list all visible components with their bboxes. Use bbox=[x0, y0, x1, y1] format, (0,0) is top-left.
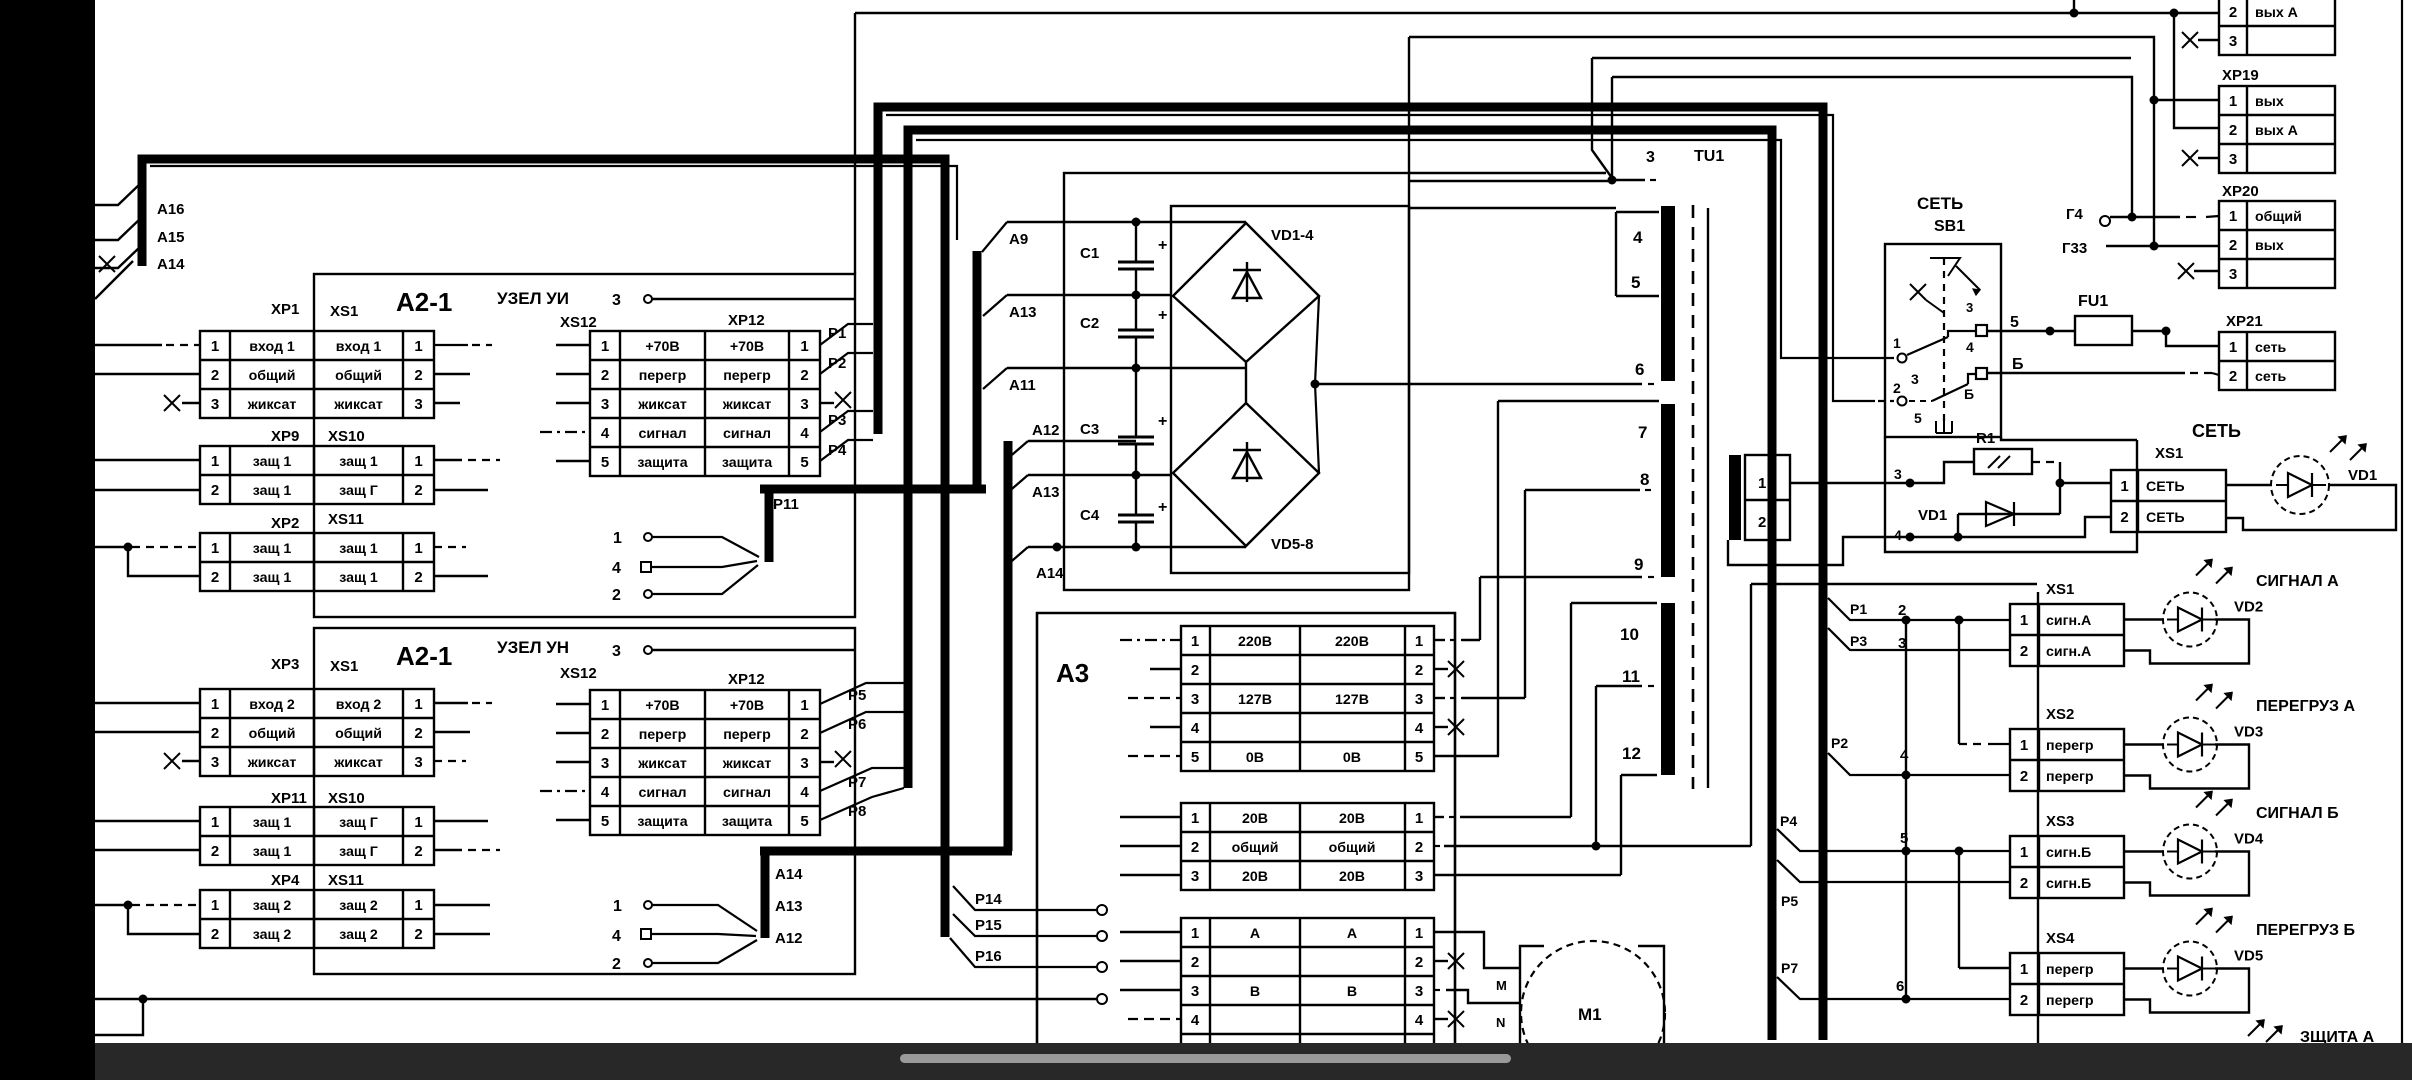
x-mark XP18 row3 bbox=[2182, 32, 2198, 48]
svg-text:2: 2 bbox=[2229, 4, 2237, 21]
svg-text:3: 3 bbox=[601, 755, 609, 772]
svg-text:2: 2 bbox=[601, 367, 609, 384]
svg-text:1: 1 bbox=[2120, 478, 2128, 495]
svg-text:4: 4 bbox=[601, 784, 610, 801]
svg-text:защ 2: защ 2 bbox=[339, 927, 378, 943]
svg-text:3: 3 bbox=[211, 396, 219, 413]
svg-text:2: 2 bbox=[2229, 122, 2237, 139]
wire A3-3 row2 stub bbox=[1120, 960, 1181, 962]
wire A13 upper bbox=[1007, 294, 1171, 296]
svg-text:С3: С3 bbox=[1080, 421, 1099, 438]
svg-text:0В: 0В bbox=[1246, 750, 1264, 766]
junction dot 1906-620 bbox=[1902, 616, 1911, 625]
wire left XP9 row2 bbox=[95, 489, 200, 491]
connector table XP3 bbox=[200, 689, 434, 776]
bus B thin companion wire to SB1 pin1 bbox=[916, 140, 1894, 358]
table A3 mains taps bbox=[1181, 626, 1434, 771]
svg-text:VD3: VD3 bbox=[2234, 724, 2263, 741]
block A2-1 node UI outline bbox=[314, 274, 855, 617]
svg-text:3: 3 bbox=[612, 643, 621, 660]
wire A12 bbox=[1028, 440, 1136, 442]
LED VD5 diode symbol bbox=[2178, 957, 2202, 981]
bus B thick (inner top jumper bus) bbox=[908, 130, 1772, 1040]
wire left XP4 branch down bbox=[128, 905, 200, 934]
wire secondary 2 to lower rail bbox=[1728, 517, 2111, 565]
wire A3-1 row3 stub dashed bbox=[1128, 697, 1181, 699]
wire dashes from pin2 bbox=[1909, 400, 1932, 402]
svg-text:VD1-4: VD1-4 bbox=[1271, 227, 1314, 244]
x-mark XP19 row3 bbox=[2182, 150, 2198, 166]
svg-text:2: 2 bbox=[414, 367, 422, 384]
wire bridge outputs join bbox=[1315, 296, 1319, 473]
wire A14 lower slant bbox=[1006, 547, 1028, 566]
svg-text:А14: А14 bbox=[775, 866, 803, 883]
svg-text:А13: А13 bbox=[1032, 484, 1060, 501]
transformer primary bar section 3 bbox=[1661, 603, 1675, 775]
wire tap9 bbox=[1480, 576, 1642, 578]
svg-text:3: 3 bbox=[800, 755, 808, 772]
svg-text:В: В bbox=[1347, 984, 1357, 1000]
junction dot fuse right bbox=[2162, 327, 2171, 336]
svg-text:3: 3 bbox=[612, 292, 621, 309]
wire A3-1 row1 stub dash-dot bbox=[1120, 639, 1181, 641]
svg-text:3: 3 bbox=[1191, 691, 1199, 708]
wire P8 slant bbox=[820, 788, 904, 820]
wire branch 1959 lower bbox=[1958, 851, 1960, 968]
wire right XP3 row2 bbox=[434, 731, 470, 733]
wire bottom rail with connector circle bbox=[95, 998, 1096, 1000]
svg-text:защ 1: защ 1 bbox=[339, 570, 378, 586]
svg-text:2: 2 bbox=[2020, 643, 2028, 660]
svg-text:сигн.А: сигн.А bbox=[2046, 644, 2091, 660]
svg-text:С1: С1 bbox=[1080, 245, 1099, 262]
svg-text:жиксат: жиксат bbox=[247, 397, 297, 413]
svg-text:2: 2 bbox=[414, 569, 422, 586]
svg-text:сигнал: сигнал bbox=[639, 785, 687, 801]
wire vertical 855 bbox=[854, 13, 856, 274]
transformer secondary side line bbox=[1707, 208, 1709, 788]
connector table XP4 bbox=[200, 890, 434, 948]
x-mark XP20 row3 bbox=[2178, 263, 2194, 279]
svg-text:1: 1 bbox=[2020, 844, 2028, 861]
winding box 4-5 bbox=[1615, 212, 1617, 296]
wire pin2 to bus D tip bbox=[652, 565, 758, 594]
wire right XP4 row1 bbox=[434, 904, 490, 906]
wire SB1 pin6 to XP21 row2 bbox=[1987, 372, 2185, 374]
x-mark A3-3 row4 bbox=[1434, 1018, 1448, 1020]
wire A9 bbox=[1007, 221, 1246, 223]
svg-text:3: 3 bbox=[1911, 371, 1919, 387]
svg-text:жиксат: жиксат bbox=[247, 755, 297, 771]
svg-text:ХР11: ХР11 bbox=[271, 790, 307, 807]
svg-text:ХР4: ХР4 bbox=[271, 872, 300, 889]
svg-text:ПЕРЕГРУЗ А: ПЕРЕГРУЗ А bbox=[2256, 698, 2355, 715]
svg-text:+70В: +70В bbox=[645, 339, 679, 355]
svg-text:Р14: Р14 bbox=[975, 891, 1002, 908]
x-mark XS12b row3 bbox=[820, 761, 834, 763]
wire P1 slant right bbox=[1828, 598, 2010, 620]
wire A3-2 row2 stub bbox=[1120, 845, 1181, 847]
svg-text:жиксат: жиксат bbox=[722, 756, 772, 772]
wire tap8 riser bbox=[1524, 490, 1526, 698]
wire A3-2 row2 to riser 1754 bbox=[1434, 845, 1444, 847]
wire right XP4 row2 bbox=[434, 933, 490, 935]
junction dot lower rail left bbox=[1906, 533, 1915, 542]
wire y77 to G4 bbox=[1612, 77, 2132, 217]
capacitor C2 bbox=[1135, 295, 1137, 330]
svg-text:вход 2: вход 2 bbox=[249, 697, 295, 713]
wire tap7 bbox=[1498, 400, 1659, 402]
svg-text:6: 6 bbox=[1896, 978, 1904, 995]
svg-text:1: 1 bbox=[2229, 208, 2237, 225]
svg-text:ХР3: ХР3 bbox=[271, 656, 299, 673]
junction dot net 3 wire bbox=[1906, 479, 1915, 488]
svg-text:5: 5 bbox=[1900, 830, 1908, 847]
wire ХS1 row1 to LED bbox=[2124, 618, 2163, 620]
wire A3-2 row1 stub bbox=[1120, 816, 1181, 818]
svg-text:2: 2 bbox=[211, 926, 219, 943]
transformer TU1 core dashed bbox=[1692, 205, 1695, 789]
svg-text:В: В bbox=[1250, 984, 1260, 1000]
svg-text:5: 5 bbox=[601, 454, 609, 471]
svg-text:А: А bbox=[1250, 926, 1260, 942]
svg-text:4: 4 bbox=[1894, 527, 1902, 543]
svg-text:3: 3 bbox=[1646, 149, 1655, 166]
wire A14 lower bbox=[1028, 546, 1246, 548]
wire P4 slant bbox=[820, 440, 873, 461]
wire pin1 to bus C tip bbox=[652, 905, 757, 931]
wire tap10 riser bbox=[1570, 603, 1572, 817]
LED VD4 diode symbol bbox=[2178, 840, 2202, 864]
wire bottom hook to left edge bbox=[95, 999, 143, 1035]
svg-text:защита: защита bbox=[722, 455, 772, 471]
svg-text:5: 5 bbox=[2010, 314, 2019, 331]
svg-text:защ 1: защ 1 bbox=[253, 570, 292, 586]
svg-text:220В: 220В bbox=[1238, 634, 1272, 650]
switch blade 2 bbox=[1932, 374, 1976, 401]
svg-text:ХР19: ХР19 bbox=[2222, 67, 2259, 84]
svg-text:защ 1: защ 1 bbox=[253, 541, 292, 557]
svg-text:ХР12: ХР12 bbox=[728, 671, 765, 688]
svg-text:2: 2 bbox=[2229, 368, 2237, 385]
wire pin1 to bus D tip bbox=[652, 537, 759, 557]
bus A thin companion wire to SB1 pin2 bbox=[886, 115, 1875, 401]
wire tap3 bbox=[1612, 179, 1645, 181]
junction dot 1959-851 bbox=[1955, 847, 1964, 856]
LED VD1 circle bbox=[2271, 456, 2329, 514]
svg-text:Р16: Р16 bbox=[975, 948, 1002, 965]
wire left XP11 row2 bbox=[95, 849, 200, 851]
svg-text:С2: С2 bbox=[1080, 315, 1099, 332]
svg-text:А3: А3 bbox=[1056, 658, 1089, 688]
svg-text:общий: общий bbox=[1329, 840, 1376, 856]
svg-text:SВ1: SВ1 bbox=[1934, 218, 1965, 235]
wire stub A14 with x-mark bbox=[95, 246, 141, 268]
LED VD3 diode symbol bbox=[2178, 733, 2202, 757]
svg-text:220В: 220В bbox=[1335, 634, 1369, 650]
svg-text:А12: А12 bbox=[775, 930, 803, 947]
junction dot 1959-620 bbox=[1955, 616, 1964, 625]
LED VD5 circle bbox=[2163, 942, 2217, 996]
wire tap10 bbox=[1571, 602, 1657, 604]
switch linkage dashed bbox=[1943, 258, 1945, 424]
junction dot XP19 row1 bbox=[2150, 96, 2159, 105]
bus D thick (left riser) bbox=[760, 251, 986, 562]
wire y58 bbox=[1592, 57, 2131, 59]
junction dot C4 bottom bbox=[1132, 543, 1141, 552]
wire tap11 bbox=[1596, 685, 1642, 687]
svg-text:4: 4 bbox=[800, 784, 809, 801]
svg-text:А9: А9 bbox=[1009, 231, 1028, 248]
svg-text:защ 2: защ 2 bbox=[253, 927, 292, 943]
svg-text:общий: общий bbox=[1232, 840, 1279, 856]
svg-text:ХS1: ХS1 bbox=[2046, 581, 2074, 598]
svg-text:20В: 20В bbox=[1339, 869, 1365, 885]
svg-text:Б: Б bbox=[2012, 356, 2024, 373]
svg-text:1: 1 bbox=[1415, 633, 1423, 650]
junction dot bridge output bbox=[1311, 380, 1320, 389]
power module box bottom bbox=[1885, 437, 2137, 552]
wire y37 to XP19 area bbox=[1409, 37, 2154, 246]
svg-text:вых А: вых А bbox=[2255, 5, 2298, 21]
wire left XP1 row1 dashed bbox=[95, 344, 162, 346]
svg-text:3: 3 bbox=[601, 396, 609, 413]
svg-text:Р2: Р2 bbox=[828, 355, 846, 372]
svg-text:ХS2: ХS2 bbox=[2046, 706, 2074, 723]
wire tap4 bbox=[1616, 211, 1659, 213]
wire pin4 to bus C tip bbox=[652, 934, 756, 936]
svg-text:1: 1 bbox=[211, 540, 219, 557]
motor frame right bbox=[1638, 946, 1664, 1043]
svg-text:защ 1: защ 1 bbox=[253, 844, 292, 860]
junction dot VD1 node bbox=[2056, 479, 2065, 488]
bus A thick (outer top jumper bus) bbox=[878, 107, 1823, 1040]
svg-text:12: 12 bbox=[1622, 744, 1641, 763]
svg-text:2: 2 bbox=[211, 725, 219, 742]
svg-text:вход 1: вход 1 bbox=[336, 339, 382, 355]
svg-text:+70В: +70В bbox=[645, 698, 679, 714]
switch arrow contact 3 bbox=[1956, 266, 1980, 290]
wire vertical 1592 with diagonal bbox=[1592, 58, 1612, 178]
svg-text:перегр: перегр bbox=[639, 368, 687, 384]
connector table ХS2 bbox=[2010, 729, 2124, 791]
wire P4 slant right bbox=[1777, 829, 2010, 851]
LED VD1 arrows bbox=[2330, 436, 2346, 452]
svg-text:сеть: сеть bbox=[2255, 340, 2287, 356]
svg-text:СЕТЬ: СЕТЬ bbox=[2146, 479, 2185, 495]
pin circle 3 block2 bbox=[644, 646, 652, 654]
wire A3-2 row3 to tap12 riser bbox=[1434, 874, 1621, 876]
svg-text:ХР2: ХР2 bbox=[271, 515, 299, 532]
svg-text:2: 2 bbox=[2020, 875, 2028, 892]
pin circle 2 bbox=[1898, 397, 1907, 406]
svg-text:Р3: Р3 bbox=[828, 412, 846, 429]
svg-text:3: 3 bbox=[211, 754, 219, 771]
svg-text:Р4: Р4 bbox=[1780, 813, 1797, 829]
svg-text:1: 1 bbox=[2229, 93, 2237, 110]
svg-text:Г33: Г33 bbox=[2062, 240, 2087, 257]
wire tap11 riser bbox=[1595, 686, 1597, 846]
svg-text:2: 2 bbox=[414, 843, 422, 860]
svg-text:ХР1: ХР1 bbox=[271, 301, 299, 318]
wire right XP1 row3 bbox=[434, 402, 460, 404]
LED VD3 arrows bbox=[2196, 685, 2212, 701]
svg-text:Р2: Р2 bbox=[1831, 735, 1848, 751]
svg-text:защита: защита bbox=[722, 814, 772, 830]
connector table XP11 bbox=[200, 807, 434, 865]
junction dot tap11 bbox=[1592, 842, 1601, 851]
svg-text:ХS11: ХS11 bbox=[328, 511, 364, 528]
table A3 20V taps bbox=[1181, 803, 1434, 890]
pin circle G4 bbox=[2100, 216, 2110, 226]
svg-text:сигн.Б: сигн.Б bbox=[2046, 876, 2091, 892]
svg-text:1: 1 bbox=[800, 338, 808, 355]
svg-text:2: 2 bbox=[601, 726, 609, 743]
svg-text:1: 1 bbox=[1758, 475, 1766, 492]
svg-text:ХS10: ХS10 bbox=[328, 428, 365, 445]
svg-text:С4: С4 bbox=[1080, 507, 1100, 524]
svg-text:перегр: перегр bbox=[723, 368, 771, 384]
wire A9 slant from bus D bbox=[982, 222, 1007, 252]
wire P16 tap with connector circle bbox=[950, 938, 1096, 967]
svg-text:1: 1 bbox=[1191, 810, 1199, 827]
wire right XP2 row2 bbox=[434, 575, 488, 577]
svg-text:защита: защита bbox=[637, 455, 687, 471]
wire left XP11 row1 bbox=[95, 820, 200, 822]
svg-text:2: 2 bbox=[1191, 662, 1199, 679]
svg-text:ХS3: ХS3 bbox=[2046, 813, 2074, 830]
svg-text:6: 6 bbox=[1635, 360, 1644, 379]
svg-text:А14: А14 bbox=[1036, 565, 1064, 582]
wire right XP11 row2 dashed bbox=[434, 849, 462, 851]
junction dot lower rail VD1 bbox=[1954, 533, 1963, 542]
svg-text:4: 4 bbox=[612, 928, 621, 945]
svg-text:А12: А12 bbox=[1032, 422, 1060, 439]
svg-text:ХS11: ХS11 bbox=[328, 872, 364, 889]
svg-text:А14: А14 bbox=[157, 256, 185, 273]
wire R1 right dashed bbox=[2032, 461, 2056, 463]
wire from pin3 to block edge bbox=[652, 649, 855, 651]
pin circle 1 bbox=[1898, 354, 1907, 363]
wire right XP2 row1 dashed bbox=[434, 546, 466, 548]
wire A3-3 row1 stub bbox=[1120, 931, 1181, 933]
svg-text:общий: общий bbox=[249, 726, 296, 742]
pin circle 3 block1 bbox=[644, 295, 652, 303]
svg-text:8: 8 bbox=[1640, 470, 1649, 489]
junction dot 1906-775 bbox=[1902, 771, 1911, 780]
wire A11 bbox=[1007, 367, 1246, 369]
wire A13 slant bbox=[983, 295, 1007, 316]
x-mark A3-1 row2 bbox=[1434, 668, 1448, 670]
svg-text:0В: 0В bbox=[1343, 750, 1361, 766]
svg-text:2: 2 bbox=[1191, 839, 1199, 856]
wire inner box top extension to winding 4 bbox=[1409, 207, 1616, 209]
wire A3-1 row2 stub bbox=[1150, 668, 1181, 670]
svg-text:5: 5 bbox=[1415, 749, 1423, 766]
wire left XP2 row1 with junction bbox=[95, 546, 130, 548]
svg-text:М: М bbox=[1496, 978, 1507, 993]
svg-text:защ 2: защ 2 bbox=[339, 898, 378, 914]
junction dot 1906-851 bbox=[1902, 847, 1911, 856]
transformer primary bar section 1 bbox=[1661, 206, 1675, 381]
connector table XP9/XS10 bbox=[200, 446, 434, 504]
secondary winding cell box bbox=[1745, 455, 1790, 540]
svg-text:защ 1: защ 1 bbox=[253, 483, 292, 499]
x-mark A3-1 row4 bbox=[1434, 726, 1448, 728]
svg-text:А13: А13 bbox=[1009, 304, 1037, 321]
svg-text:3: 3 bbox=[1415, 983, 1423, 1000]
svg-text:2: 2 bbox=[800, 726, 808, 743]
wire A3-2 row3 stub bbox=[1120, 874, 1181, 876]
svg-text:ХР9: ХР9 bbox=[271, 428, 299, 445]
wire P7 slant bbox=[820, 768, 904, 791]
svg-text:Р5: Р5 bbox=[848, 687, 866, 704]
wire A3-1 row1 to tap9 bbox=[1434, 639, 1445, 641]
svg-text:2: 2 bbox=[211, 367, 219, 384]
block A2-1 node UN outline bbox=[314, 628, 855, 974]
svg-text:1: 1 bbox=[601, 697, 609, 714]
wire tap11 rail riser to XS net bbox=[1751, 583, 2037, 585]
svg-text:2: 2 bbox=[1758, 514, 1766, 531]
svg-text:1: 1 bbox=[211, 814, 219, 831]
svg-text:3: 3 bbox=[1191, 868, 1199, 885]
LED VD4 circle bbox=[2163, 825, 2217, 879]
svg-text:3: 3 bbox=[414, 396, 422, 413]
wire ХS2 row1 to LED bbox=[2124, 743, 2163, 745]
svg-text:ХS1: ХS1 bbox=[330, 303, 358, 320]
wire SB1 box edge to module box bbox=[2001, 437, 2137, 440]
svg-text:2: 2 bbox=[612, 587, 621, 604]
svg-text:1: 1 bbox=[414, 696, 422, 713]
wire stub XS12-1 bbox=[556, 344, 590, 346]
svg-text:М1: М1 bbox=[1578, 1005, 1602, 1024]
svg-text:ХР20: ХР20 bbox=[2222, 183, 2259, 200]
svg-text:2: 2 bbox=[800, 367, 808, 384]
bridge rectifier VD5-8 diamond bbox=[1173, 403, 1319, 546]
table A3 motor phases bbox=[1181, 918, 1434, 1063]
bus C bottom-left leg bbox=[761, 851, 770, 938]
fuse FU1 body bbox=[2075, 316, 2132, 345]
svg-text:1: 1 bbox=[2020, 612, 2028, 629]
bus C thin companion wire bbox=[150, 166, 957, 240]
svg-text:1: 1 bbox=[2020, 961, 2028, 978]
svg-text:защ 1: защ 1 bbox=[253, 815, 292, 831]
svg-text:Р1: Р1 bbox=[828, 325, 846, 342]
junction dot C2/C3 bbox=[1132, 364, 1141, 373]
wire left XP4 row1 with junction bbox=[95, 904, 130, 906]
svg-text:4: 4 bbox=[800, 425, 809, 442]
svg-text:2: 2 bbox=[1893, 380, 1901, 396]
wire tap12 bbox=[1621, 774, 1657, 776]
wire LED VD1 return bbox=[2226, 485, 2396, 530]
svg-text:2: 2 bbox=[1415, 954, 1423, 971]
svg-text:ХS1: ХS1 bbox=[2155, 445, 2183, 462]
block A3 outline bbox=[1037, 613, 1455, 1043]
bottom dark bar bbox=[95, 1043, 2412, 1080]
junction dot G33 bbox=[2150, 242, 2159, 251]
wire G33 to XP20 row2 bbox=[2106, 245, 2219, 247]
wire to XP19 row1 bbox=[2154, 99, 2219, 101]
capacitor C3 bbox=[1135, 368, 1137, 437]
wire P5 slant bbox=[820, 683, 905, 704]
svg-text:2: 2 bbox=[211, 843, 219, 860]
wire to XS4 row1 bbox=[1959, 967, 2010, 969]
x-mark XP12 row3 bbox=[820, 402, 834, 404]
svg-text:3: 3 bbox=[1894, 466, 1902, 482]
wire P3 slant right bbox=[1828, 628, 2010, 650]
resistor R1 body bbox=[1974, 449, 2032, 474]
connector table XP1/XS1 bbox=[200, 331, 434, 418]
